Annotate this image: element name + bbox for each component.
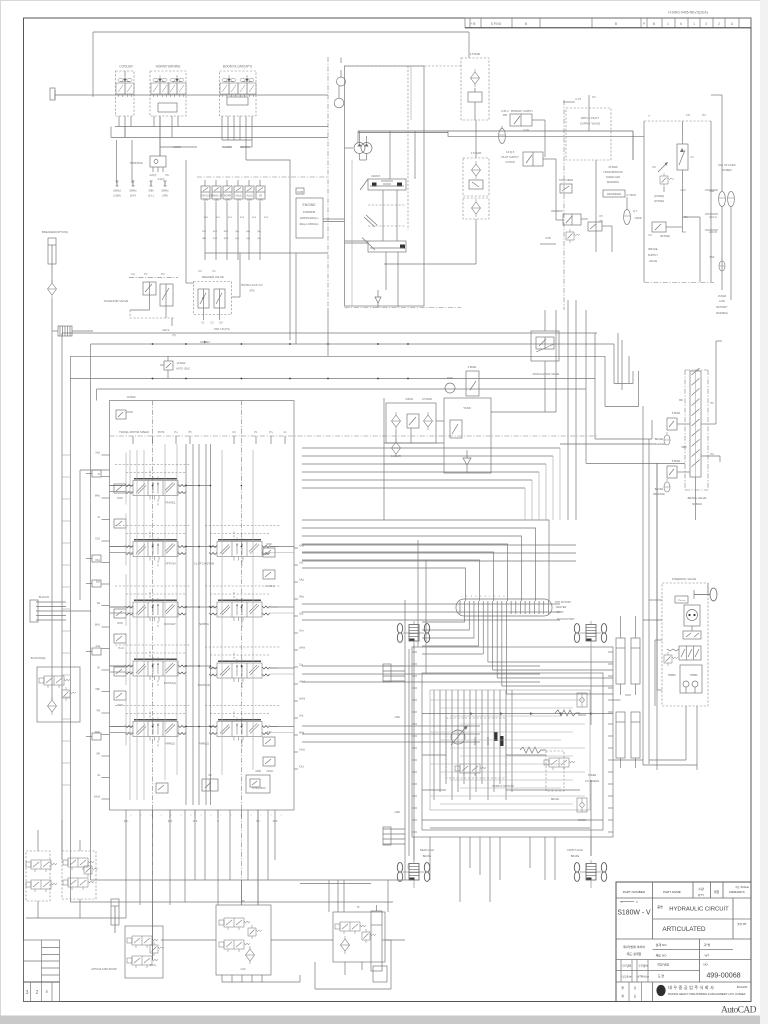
steering right feeds	[696, 765, 698, 770]
svg-text:BLOCK'D: BLOCK'D	[39, 596, 50, 599]
svg-text:재: 재	[621, 994, 624, 998]
svg-text:5.5BAR: 5.5BAR	[672, 460, 681, 463]
svg-text:토: 토	[634, 994, 637, 998]
svg-text:C-75: C-75	[575, 97, 581, 101]
wire bus lower	[111, 136, 328, 138]
vertical feeders to cluster	[404, 600, 406, 880]
spool valve BOOM(1)	[125, 657, 186, 680]
svg-text:0.9BAR: 0.9BAR	[468, 366, 477, 369]
steering amplifier box	[680, 665, 702, 693]
pump case drain wire	[345, 240, 369, 242]
radiator	[445, 383, 455, 393]
right frame verticals	[642, 406, 644, 760]
svg-text:KEY2: KEY2	[163, 328, 170, 332]
top right corner wire	[730, 240, 732, 300]
svg-text:ENGINE: ENGINE	[303, 203, 317, 207]
svg-text:SCREW: SCREW	[722, 169, 732, 172]
svg-text:(2u): (2u)	[235, 238, 239, 240]
svg-text:P3: P3	[710, 401, 714, 405]
check valve C1	[677, 144, 688, 170]
svg-text:YAd1: YAd1	[299, 749, 306, 752]
hose zigzag right	[520, 747, 546, 753]
svg-text:B: B	[525, 22, 527, 26]
svg-text:CYLINDERS: CYLINDERS	[585, 780, 600, 783]
wires rotary fan right	[488, 661, 613, 663]
svg-text:BEAKER VALVE: BEAKER VALVE	[202, 275, 223, 279]
trio bus drop wires	[124, 127, 126, 138]
svg-text:3W: 3W	[96, 753, 100, 756]
svg-text:WARMUP: WARMUP	[551, 209, 563, 213]
svg-text:XAg: XAg	[299, 579, 304, 582]
svg-text:A1(U): A1(U)	[158, 177, 165, 181]
axle front right bottom	[574, 860, 606, 888]
arm holding valve	[246, 775, 270, 793]
svg-text:P4: P4	[592, 95, 596, 99]
pump box drain triangle	[375, 297, 381, 303]
svg-text:575cc/rev: 575cc/rev	[677, 599, 685, 602]
svg-text:FRONT AXLE: FRONT AXLE	[567, 849, 583, 852]
svg-text:XAd: XAd	[95, 452, 100, 455]
svg-text:(10M): (10M)	[113, 194, 120, 198]
left comb connector lower	[383, 828, 405, 830]
svg-text:XAd2: XAd2	[94, 796, 101, 799]
svg-text:C2: C2	[648, 233, 652, 237]
block2 cylinder	[371, 911, 382, 971]
title block header row	[616, 897, 751, 899]
bus wire 378	[70, 378, 595, 380]
svg-text:PRIMARY SUPPLY: PRIMARY SUPPLY	[511, 109, 534, 113]
wire drops boom float	[222, 139, 252, 141]
svg-text:WARNING: WARNING	[716, 312, 728, 315]
bank right mid wires	[302, 447, 560, 449]
steering spool	[679, 646, 701, 660]
svg-text:(3d): (3d)	[246, 231, 250, 233]
svg-text:A2(U): A2(U)	[150, 173, 157, 177]
manifold drop wires	[204, 202, 206, 253]
svg-text:제3각법에 의하여: 제3각법에 의하여	[623, 944, 645, 949]
long bottom bus	[70, 901, 388, 903]
svg-text:6: 6	[680, 22, 682, 26]
svg-text:REAR AXLE: REAR AXLE	[420, 849, 434, 852]
pump box inner verticals	[382, 190, 384, 241]
svg-text:JA: JA	[97, 774, 100, 777]
svg-text:H-HOLDING: H-HOLDING	[252, 787, 266, 790]
svg-text:(3c): (3c)	[257, 231, 261, 233]
axle rear left bottom	[397, 860, 429, 888]
svg-text:+50E: +50E	[394, 716, 400, 719]
svg-text:수량: 수량	[698, 886, 704, 891]
aux valve boom hold	[114, 667, 126, 676]
svg-text:ARM(1): ARM(1)	[199, 742, 209, 746]
right lower frame wires	[613, 759, 643, 761]
svg-text:HORN: HORN	[224, 195, 232, 198]
steer cylinder pair upper	[616, 638, 625, 684]
svg-text:결: 결	[621, 986, 624, 990]
svg-text:499-00068: 499-00068	[706, 971, 740, 980]
cluster inner horizontals	[430, 699, 585, 701]
svg-text:BOOM(1): BOOM(1)	[164, 681, 176, 685]
bus wire 356	[70, 355, 605, 357]
bottom left solenoid box A	[26, 851, 50, 901]
cluster port ticks	[412, 651, 417, 653]
valve bank frame	[110, 401, 295, 811]
svg-text:BRAKE: BRAKE	[571, 855, 580, 858]
svg-text:1: 1	[693, 22, 695, 26]
svg-text:x: x	[261, 815, 262, 817]
svg-text:1: 1	[667, 22, 669, 26]
left comb connector upper	[383, 665, 405, 667]
revision table strip	[465, 18, 751, 28]
main supply wire double	[358, 130, 448, 132]
svg-text:x: x	[211, 815, 212, 817]
pump assembly box	[345, 66, 425, 306]
svg-text:ACC A: ACC A	[709, 216, 717, 219]
metering unit	[675, 596, 688, 603]
svg-text:재질: 재질	[714, 889, 720, 894]
svg-text:dXAb: dXAb	[299, 647, 306, 650]
svg-text:STEERING VALVE: STEERING VALVE	[672, 577, 697, 581]
svg-text:STDN 2BAR: STDN 2BAR	[559, 179, 573, 182]
svg-text:SBO: SBO	[681, 446, 686, 449]
bank to right bus wires	[302, 544, 576, 546]
aux valve right ROD	[263, 548, 275, 557]
svg-text:C6: C6	[652, 165, 656, 169]
axle riser wires	[413, 645, 415, 860]
svg-text:10 BAR: 10 BAR	[177, 361, 186, 365]
svg-text:3: 3	[705, 22, 707, 26]
modulation valve	[531, 331, 559, 361]
svg-text:x: x	[171, 815, 172, 817]
svg-text:C2: C2	[131, 272, 135, 276]
wire warmup tank	[581, 218, 588, 220]
svg-text:BOOM LOCK V/V: BOOM LOCK V/V	[241, 283, 263, 287]
svg-text:WARNING: WARNING	[607, 180, 619, 184]
svg-text:TOP ROTARY: TOP ROTARY	[555, 600, 572, 604]
aux valve anti-drift	[114, 519, 126, 528]
svg-text:P7: P7	[144, 272, 148, 276]
svg-text:②모델№: ②모델№	[638, 964, 648, 968]
svg-text:PARK'G MOTOR: PARK'G MOTOR	[492, 784, 513, 788]
valve group BOOM FLOAT	[220, 71, 257, 116]
svg-text:HUAC: HUAC	[267, 770, 274, 773]
svg-text:W2Ae: W2Ae	[407, 862, 410, 869]
svg-text:RETARDER: RETARDER	[607, 192, 621, 196]
acc top wires	[721, 95, 723, 191]
left wire stubs bank	[62, 454, 70, 456]
aux valve right SJO	[263, 737, 275, 746]
svg-text:A2(d): A2(d)	[235, 195, 241, 198]
part number cell S180W-V	[620, 901, 634, 903]
wire bus cooler	[115, 126, 328, 128]
svg-text:C7W: C7W	[545, 236, 551, 240]
svg-text:TRAVEL: TRAVEL	[164, 501, 175, 505]
brake valve assembly	[685, 368, 708, 490]
svg-text:3/8h: 3/8h	[148, 189, 154, 193]
steering relief	[664, 652, 678, 666]
svg-text:PA: PA	[97, 602, 100, 605]
boom lock feed wire	[186, 282, 194, 284]
svg-text:60 BAR: 60 BAR	[692, 502, 702, 506]
axle rear left	[397, 621, 429, 649]
svg-text:(25 BAR): (25 BAR)	[654, 200, 664, 203]
right top verticals	[621, 340, 623, 390]
bank drops to blocks	[328, 880, 330, 912]
svg-text:3a1: 3a1	[96, 581, 101, 584]
svg-text:x: x	[131, 815, 132, 817]
svg-text:MAu: MAu	[95, 495, 101, 498]
svg-text:P5A: P5A	[710, 190, 715, 193]
svg-text:H:DWG-0405-REV.5(2EA): H:DWG-0405-REV.5(2EA)	[668, 11, 708, 15]
svg-text:3/4: 3/4	[206, 341, 210, 344]
bundle to bus	[289, 177, 291, 340]
svg-text:척도 SCALE: 척도 SCALE	[735, 885, 749, 889]
svg-text:ARTICULATED: ARTICULATED	[662, 926, 706, 933]
svg-text:ARM: ARM	[255, 770, 261, 773]
parking valve msp	[455, 764, 486, 776]
svg-text:과 명: 과 명	[704, 942, 711, 947]
svg-text:P4: P4	[702, 113, 706, 117]
svg-text:중량 WT: 중량 WT	[737, 922, 747, 926]
svg-text:STEER: STEER	[588, 774, 597, 777]
svg-text:2: 2	[718, 22, 720, 26]
bank bottom long drops	[125, 818, 127, 905]
svg-text:TRAVEL MOTOR SPEED: TRAVEL MOTOR SPEED	[119, 430, 149, 434]
steering wheel	[710, 588, 717, 601]
bottom left wires	[37, 830, 39, 851]
svg-text:BOOM FLOAT(OPT): BOOM FLOAT(OPT)	[223, 65, 252, 69]
bottom block wires	[125, 905, 127, 918]
accumulator T	[624, 210, 631, 225]
pilot boundary wire	[93, 31, 469, 33]
svg-text:TRANSMISSION: TRANSMISSION	[603, 170, 623, 174]
title block approval cells	[620, 960, 622, 983]
svg-text:BOOM(2): BOOM(2)	[198, 683, 210, 687]
svg-text:RELEASE: RELEASE	[653, 493, 665, 496]
svg-text:ARTICULATED BOOM: ARTICULATED BOOM	[91, 968, 116, 971]
svg-text:BR: BR	[679, 399, 683, 402]
svg-text:설계 NO: 설계 NO	[656, 942, 668, 947]
wires bank to rotary	[302, 520, 549, 601]
svg-text:SERVO: SERVO	[487, 737, 490, 745]
svg-text:RD1: RD1	[224, 231, 229, 233]
svg-text:MAKE UP: MAKE UP	[211, 195, 223, 198]
svg-text:RELEASE: RELEASE	[653, 443, 665, 446]
svg-text:④TRIAL№: ④TRIAL№	[637, 975, 649, 979]
svg-text:제도 NO: 제도 NO	[656, 953, 668, 958]
svg-text:0.35 L/: 0.35 L/	[501, 110, 509, 113]
svg-text:19 BAR: 19 BAR	[127, 395, 136, 399]
svg-text:+ B: + B	[471, 22, 476, 26]
hose labels	[116, 140, 118, 183]
svg-text:A1(d): A1(d)	[246, 195, 252, 198]
svg-text:BRAKE: BRAKE	[648, 247, 657, 251]
svg-text:0.7 BAR: 0.7 BAR	[626, 194, 636, 197]
check valve upper	[577, 693, 587, 707]
left wires to bank	[80, 469, 110, 471]
relief 16-25 bar	[660, 173, 674, 187]
svg-text:(6-F): (6-F)	[130, 194, 136, 198]
svg-text:(2A): (2A)	[225, 199, 230, 202]
wires rotary down	[464, 614, 466, 622]
bottom center block 1	[216, 905, 271, 975]
svg-text:①모델명: ①모델명	[622, 964, 631, 968]
svg-text:ARM(2): ARM(2)	[165, 742, 175, 746]
brake valve outlet wires	[701, 423, 716, 425]
svg-text:NO.: NO.	[703, 963, 709, 967]
svg-text:P0 P9: P0 P9	[158, 431, 165, 434]
valve TURNING	[150, 156, 166, 167]
spool valve OPTION	[125, 538, 186, 561]
bank gallery wires	[185, 444, 187, 805]
svg-text:x: x	[151, 815, 152, 817]
svg-text:16 BAR: 16 BAR	[718, 295, 727, 298]
pilot dashed vertical	[407, 66, 409, 230]
svg-text:(2c): (2c)	[257, 238, 261, 240]
svg-text:ROD: ROD	[117, 497, 123, 500]
svg-text:CHECK: CHECK	[578, 714, 587, 717]
bottom left solenoid box B	[62, 851, 96, 899]
boom cylinder	[111, 899, 119, 933]
aux valve ROD upper	[114, 484, 126, 493]
bank bottom ports	[125, 810, 127, 818]
svg-text:E: E	[46, 989, 49, 994]
svg-text:PS2: PS2	[710, 256, 715, 259]
svg-text:대우중공업주식회사: 대우중공업주식회사	[668, 984, 715, 991]
svg-text:XBp: XBp	[95, 688, 100, 691]
svg-text:(3A): (3A)	[203, 199, 208, 202]
svg-text:QTY: QTY	[698, 893, 704, 897]
steering bottom ports	[685, 706, 687, 760]
svg-text:x: x	[191, 815, 192, 817]
regulator cluster upper	[368, 179, 406, 190]
svg-text:P0V: P0V	[202, 231, 207, 233]
cluster horizontals main	[422, 754, 446, 756]
svg-text:MIN: MIN	[503, 114, 508, 117]
valve group COOLER	[116, 71, 135, 116]
svg-text:MODULATION VALVE: MODULATION VALVE	[533, 372, 560, 376]
spool valve BUCKET	[125, 598, 186, 621]
svg-text:TANK: TANK	[463, 406, 471, 410]
svg-text:x: x	[221, 815, 222, 817]
bus wire 389	[97, 388, 586, 390]
svg-text:(3X): (3X)	[236, 199, 241, 202]
svg-text:BLOCK'D[1E]: BLOCK'D[1E]	[31, 657, 46, 660]
rotary joint ticks	[459, 601, 461, 614]
steering feed wires	[649, 759, 686, 761]
svg-text:W2Ae: W2Ae	[585, 862, 588, 869]
svg-text:JAd: JAd	[299, 715, 304, 718]
svg-text:25 BAR: 25 BAR	[608, 165, 617, 169]
scale column	[732, 898, 734, 939]
svg-text:PART NUMBER: PART NUMBER	[623, 890, 646, 894]
svg-text:bXAd: bXAd	[299, 698, 306, 701]
svg-text:x: x	[141, 815, 142, 817]
svg-text:x: x	[271, 815, 272, 817]
svg-text:HYDRAULIC CIRCUIT: HYDRAULIC CIRCUIT	[669, 907, 729, 913]
aux valve HUNG	[114, 634, 126, 643]
brake pressure wire dark	[560, 443, 653, 445]
svg-text:SAE 7/8 14UNF: SAE 7/8 14UNF	[718, 164, 736, 167]
pump pilot dashes	[368, 204, 406, 206]
svg-text:4 C2: 4 C2	[680, 188, 686, 192]
svg-text:VALVE: VALVE	[649, 259, 657, 263]
svg-text:(3K): (3K)	[258, 199, 263, 202]
svg-text:C.P: C.P	[686, 113, 691, 117]
svg-text:x: x	[281, 815, 282, 817]
parking brake motor box	[446, 718, 506, 778]
svg-text:BUCKET: BUCKET	[164, 622, 176, 626]
svg-text:도 면: 도 면	[658, 973, 665, 978]
svg-text:PART NAME: PART NAME	[663, 890, 681, 894]
main pump pair	[354, 143, 365, 154]
svg-text:CLUTCH/STAB: CLUTCH/STAB	[194, 562, 214, 566]
engine shaft wire	[323, 218, 345, 220]
svg-text:BRAKE: BRAKE	[655, 438, 664, 441]
svg-text:BATTERY: BATTERY	[716, 306, 728, 309]
axle front right top	[574, 621, 606, 649]
bank pilot dash rows	[115, 464, 190, 466]
svg-text:PILOT SUPPLY: PILOT SUPPLY	[501, 156, 519, 159]
svg-text:ROD: ROD	[266, 543, 272, 546]
spool valve ARM(1)	[209, 718, 270, 741]
svg-text:3: 3	[26, 990, 29, 996]
svg-text:XS: XS	[165, 173, 169, 177]
svg-text:PB: PB	[97, 710, 101, 713]
cooler comb	[58, 326, 72, 336]
svg-text:MA1: MA1	[95, 624, 101, 627]
svg-text:AutoCAD: AutoCAD	[721, 1006, 757, 1016]
svg-text:COOLER: COOLER	[119, 65, 133, 69]
wire horn feed	[160, 146, 197, 148]
svg-text:BRAKE: BRAKE	[551, 798, 560, 801]
svg-text:AUTO IDLE: AUTO IDLE	[176, 367, 190, 371]
svg-text:3Zb: 3Zb	[299, 613, 304, 616]
pump suction wire	[359, 154, 361, 161]
svg-text:TURNING: TURNING	[129, 161, 143, 165]
title block frame	[616, 882, 751, 1002]
svg-text:LOW: LOW	[719, 300, 725, 303]
svg-text:7W: 7W	[599, 220, 603, 223]
svg-text:(3B): (3B)	[214, 199, 219, 202]
svg-text:작성 년월: 작성 년월	[657, 962, 669, 967]
left blocked comb upper	[36, 601, 66, 603]
lower cluster inner box	[422, 673, 603, 830]
svg-text:CENTER: CENTER	[556, 605, 567, 609]
svg-text:C3 |0.5: C3 |0.5	[506, 150, 515, 154]
wire supply to right	[632, 131, 634, 160]
svg-text:H.UNLD: H.UNLD	[266, 585, 275, 588]
svg-text:x: x	[241, 815, 242, 817]
svg-text:검: 검	[634, 986, 637, 990]
svg-text:P2: P2	[710, 452, 714, 456]
svg-text:B: B	[653, 22, 655, 26]
pressure switch PS2	[719, 258, 725, 271]
svg-text:+50E: +50E	[394, 811, 400, 814]
svg-text:3Wu: 3Wu	[299, 596, 305, 599]
bank bottom drops	[139, 810, 141, 905]
svg-text:C1: C1	[690, 155, 694, 159]
svg-text:H.LD: H.LD	[118, 647, 124, 650]
aux valve ROD mid	[114, 609, 126, 618]
svg-text:2: 2	[36, 990, 39, 996]
aux valve right H.UNLD	[263, 570, 275, 579]
svg-text:HOSO: HOSO	[668, 674, 675, 677]
cluster inner verticals	[433, 690, 435, 800]
svg-text:0.5 BAR: 0.5 BAR	[422, 397, 432, 401]
svg-text:MAb: MAb	[95, 731, 101, 734]
svg-text:(P.F1): (P.F1)	[150, 964, 157, 967]
svg-text:(3u): (3u)	[235, 231, 239, 233]
